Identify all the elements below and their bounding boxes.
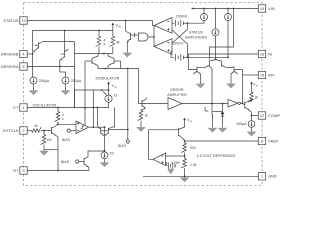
wire I4 down to error amp rail [227,21,229,58]
pin 4 DRIVERB (box) [20,50,27,57]
label R1 4k stacked [104,39,106,47]
wire center stubs [210,60,222,62]
ground below R7 [137,127,146,131]
pin 5 DRIVERA (label) [1,64,19,69]
wire Q11 base drop [120,61,122,69]
svg-text:15: 15 [260,73,264,78]
node U6 out [92,126,94,128]
node q13 top [97,107,99,109]
label I6 150uA [236,122,247,126]
label 1.5 VOLT REFERENCE [197,154,237,158]
node I4 drop [227,56,229,58]
ground ref divider [180,176,189,182]
wire modulator top rail [75,89,109,91]
svg-text:BIAS: BIAS [62,138,71,142]
pin 14 VIN (label) [268,6,275,11]
U7 minus mark [162,155,164,157]
node divider tap [184,155,186,157]
svg-text:2.5k: 2.5k [190,163,197,167]
node mirror tie [104,126,106,128]
U2 plus mark [167,28,169,30]
node ct x85 [84,107,86,109]
node rail x233.5 [233,8,235,10]
wire R5 to Q12 [41,130,49,132]
current source I3 [201,14,208,21]
svg-text:150µA: 150µA [236,122,247,126]
pin 15 INV (box) [258,71,265,78]
label VIN ref [187,118,192,123]
node VREF bottom [184,175,186,177]
label X2 [110,152,114,156]
svg-text:12: 12 [260,113,264,118]
op-amp U4 error amplifier [168,98,182,110]
svg-text:1.5 VOLT REFERENCE: 1.5 VOLT REFERENCE [197,154,237,158]
wire rail y53.5 to left rail [75,53,95,55]
wire Q16 collector stub [145,98,148,100]
svg-text:OSCILLATOR: OSCILLATOR [33,103,57,107]
node rail junction x64 [64,30,66,32]
resistor R9 2.5k [181,156,186,176]
wire DRIVERB pin4 [27,53,32,55]
battery B3 1.25V [166,162,177,169]
ground below I6 [247,127,256,136]
wire Q15 collector to X2 [88,151,105,157]
node rail x228 [227,8,229,10]
svg-text:EXTCLK: EXTCLK [3,128,19,133]
pin 3 RT (box) [20,167,27,174]
wire Q16 emitter to R7 [141,108,146,110]
wire extclk bottom rail [44,149,58,151]
wire driverA node down to source I2 [60,67,66,78]
battery B2 150mV [171,52,188,61]
resistor R8 500 [181,141,186,156]
wire error amp top rail [188,56,229,58]
ground below X2 [100,159,109,167]
svg-text:VIN: VIN [268,6,275,11]
svg-text:CT: CT [13,105,19,110]
pin 7 GND (label) [268,174,277,179]
wire Q13 Q14 bases [101,130,109,132]
transistor Q15 bias [84,157,89,168]
svg-text:MODULATOR: MODULATOR [96,76,120,80]
wire U7 output loop [149,130,179,160]
svg-text:150mV: 150mV [176,14,188,18]
svg-text:16: 16 [260,52,264,57]
transistor Q1 driverB [34,42,44,53]
label R8 500 [190,146,196,150]
label BIAS N1 [62,138,71,142]
label R5 6k [34,124,38,128]
wire Q2 emitter to driverA node [59,60,62,67]
wire EXTCLK pin2 [27,130,31,132]
U3 minus mark [167,42,169,44]
svg-text:780µA: 780µA [71,79,82,83]
node mid rail [103,53,105,55]
label R4 3k stacked [62,113,64,121]
svg-text:DRIVERB: DRIVERB [1,51,19,56]
svg-text:IN: IN [118,25,121,28]
label R6 10k [47,138,53,142]
wire Q3 emitter up to STATUS line [125,20,127,31]
label X1 [113,93,117,97]
wire Q3 collector to ground [123,41,132,57]
svg-text:10k: 10k [47,138,53,142]
wire vertical rail x=74.5 [74,42,76,109]
label 150mV (top) [176,14,188,18]
transistor Q10 (mod left) [85,54,98,69]
label BIAS N2 [118,144,127,148]
bias node N3 circle [76,160,84,163]
label MODULATOR [96,76,120,80]
svg-text:VREF: VREF [268,138,279,143]
node rail-left junction [32,53,34,55]
wire Q7 ground drop [227,74,236,88]
capacitor tick on Q3 base [134,33,136,37]
transistor Q16 ea input [142,99,146,108]
svg-text:STATUS: STATUS [3,18,19,23]
wire Q9 emitter to COMP pin [249,110,251,115]
wire U5 to Q9 base [240,103,244,105]
wire mod out drop x138.5 [138,69,140,104]
wire Q12 collector up [56,124,59,126]
node x2 top [104,150,106,152]
wire tap to U7 input [166,155,185,157]
wire mod rail drop x93.3 [92,90,94,127]
wire NI pin16 into diff pair [188,54,258,70]
label OSCILLATOR [33,103,57,107]
resistor R4 3k [55,108,60,125]
pin 2 EXTCLK (label) [3,128,19,133]
wire CT pin1 rail [27,107,108,109]
svg-text:GND: GND [268,174,277,179]
wire Q8 D1 bases [205,107,208,111]
svg-text:13: 13 [21,18,25,23]
pin 1 CT (box) [20,104,27,111]
svg-text:BIAS: BIAS [61,160,70,164]
ground below I2 [61,84,70,95]
transistor Q2 driverA [61,50,69,61]
cross wire X1a [172,23,188,43]
battery B1 150mV [172,20,188,27]
pin 3 RT (label) [13,168,19,173]
wire N2 vertical [127,68,129,140]
IC boundary (dashed border) [24,3,263,186]
svg-text:3: 3 [22,168,24,173]
node R4 bottom [57,123,59,125]
current source I6 150uA [248,121,255,128]
label VIN comp [253,83,258,88]
supply arrow VIN modulator [107,82,110,90]
wire comp node to I6 [251,116,253,121]
wire I5 top stub [215,9,217,29]
U3 plus mark [167,49,169,51]
gate U1 (AND shape) [139,33,149,41]
pin 8 VREF (label) [268,138,279,143]
wire VIN rail top-left (y=30) [33,31,113,55]
wire GND rail to pin7 [143,175,258,177]
label R3 2k [255,96,259,100]
svg-text:AMPLIFIER: AMPLIFIER [167,93,187,97]
wire U4 output to comp node [182,103,228,105]
controlled source X1 [105,90,112,102]
wire RT pin3 rail [27,170,89,172]
node ct x94 [92,107,94,109]
transistor Q3 status pnp [126,31,131,43]
node R1 top [98,30,100,32]
resistor R3 2k [248,88,253,102]
wire Q15 emitter to RT [88,167,90,170]
node ct x58 [57,107,59,109]
svg-text:ERROR: ERROR [170,88,184,92]
wire U6 output [89,126,105,128]
supply arrow VIN ref [183,118,186,123]
wire left output vertical x212 [211,69,213,104]
supply arrow VIN comp [250,82,253,89]
svg-text:INV: INV [268,72,275,77]
svg-text:2: 2 [22,128,24,133]
svg-text:k: k [104,43,106,47]
label 1.25V [171,161,181,165]
transistor Q7 (outer right) [231,67,238,74]
transistor Q11 (mod right) [108,54,121,69]
svg-text:X2: X2 [110,152,114,156]
svg-text:COMP: COMP [268,113,280,118]
wire mirror drop [104,127,106,151]
wire Q3 base to gate U1 [131,34,139,36]
wire mirror emitters [104,135,106,138]
node mod rail x101.5 [101,89,103,91]
wire mod rail left drop [74,90,76,108]
ground below Q8 [208,128,217,132]
pin 1 CT (label) [13,105,19,110]
pin 13 STATUS (label) [3,18,19,23]
wire VREF to pin8 [185,140,259,142]
transistor Q9 comp output [245,100,252,111]
label R9 2.5k [190,163,197,167]
wire Q2 drop from rail [64,31,66,51]
label VIN modulator [112,84,117,89]
pin 5 DRIVERA (box) [20,63,27,70]
current source I4 [225,14,232,21]
wire R4 to comparator [58,123,76,125]
svg-text:NI: NI [268,51,272,56]
label ERROR AMPLIFIER [167,88,187,97]
wire D1 to ground [222,116,224,127]
svg-text:500: 500 [190,146,196,150]
node comp branch [211,103,213,105]
ground extclk [40,150,49,156]
node B1 right [187,22,189,24]
op-amp U2 status amplifier (top) [154,18,172,34]
svg-text:2k: 2k [255,96,259,100]
label R7 1k [144,113,148,117]
resistor R5 6k [32,127,41,132]
wire U1 to status amps [148,36,154,38]
node rt x58 [57,170,59,172]
X1 control arrow [103,91,107,94]
wire resistor bottoms rail y=53.5 [94,53,113,55]
op-amp U7 reference amplifier [153,153,166,166]
node rail x204 [203,8,205,10]
wire status amp outputs vertical [153,26,155,47]
pin 7 GND (box) [258,173,265,180]
pin 13 STATUS (box) [20,17,27,24]
current source I2 780uA [62,77,69,84]
resistor R6 10k [41,131,46,150]
pin 14 VIN (box) [258,5,265,12]
resistor R1 4k [96,31,101,54]
label VIN top [116,23,122,28]
U7 plus mark [162,161,164,163]
transistor Q5 (inner left) [205,61,213,69]
controlled source X2 [101,151,108,159]
current source I1 780uA [30,77,37,84]
pin 16 NI (box) [258,50,265,57]
wire COMP pin stub [252,115,259,117]
wire mod left base drop x85 [84,61,86,126]
svg-text:STATUS: STATUS [189,31,204,35]
svg-text:5: 5 [22,64,24,69]
wire pin4 node down to source I1 [32,54,34,77]
wire I5 down to diff pair [215,36,217,60]
comparator U6 oscillator [76,121,89,134]
diode D1 [221,103,225,117]
wire I4 top stub [227,9,229,14]
svg-text:1k: 1k [144,113,148,117]
node extclk [43,130,45,132]
transistor Q14 mirror right [105,108,115,136]
bias node N2 circle [126,140,129,143]
inverter U5 [228,100,240,108]
wire B1 node to source I3 [188,21,205,24]
wire X1 to CT [108,102,110,108]
node B2 right [187,56,189,58]
wire bias tap right [108,129,128,131]
wire mod out rail y=68.5 [98,68,139,70]
label R2 4k [116,41,120,45]
node diff center [215,59,217,61]
U2 minus mark [167,20,169,22]
pin 12 COMP (box) [258,112,265,119]
svg-text:DRIVERA: DRIVERA [1,64,19,69]
node mod rail x108.6 [108,89,110,91]
pin 8 VREF (box) [258,137,265,144]
pin 4 DRIVERB (label) [1,51,19,56]
wire Q16 base and U4 input [139,103,169,105]
current source I5 [212,29,219,36]
wire drop to RT rail [57,150,59,171]
node rail x217 [215,8,217,10]
wire I3 top stub [203,9,205,14]
wire Q8 base to D1 [212,111,223,113]
wire Q1 collector rail y=41.5 [43,41,75,43]
wire Q12 emitter down [56,136,58,150]
label STATUS AMPLIFIERS [185,31,207,40]
wire INV vertical to comp node [242,70,244,105]
svg-text:RT: RT [13,168,19,173]
resistor R2 4k [109,31,114,54]
bias node N1 circle [67,129,76,132]
svg-text:6k: 6k [34,124,38,128]
wire STATUS pin13 to status-amp tie [27,21,154,26]
U6 hysteresis mark [81,126,85,129]
U6 minus mark [77,130,79,132]
svg-text:4k: 4k [116,41,120,45]
wire INV pin15 into diff pair [234,70,258,76]
transistor Q13 mirror left [98,108,105,136]
label I2 780uA [71,79,82,83]
wire DRIVERA pin5 [27,66,74,68]
transistor Q6 (inner right) [222,61,235,68]
svg-text:BIAS: BIAS [118,144,127,148]
node driverA junction [59,66,61,68]
svg-text:8: 8 [261,139,263,144]
node mod emitters join [104,68,106,70]
transistor Q8 mirror [212,104,213,128]
label BIAS N3 [61,160,70,164]
supply arrow VIN (top) [112,23,115,31]
svg-text:1.25V: 1.25V [171,161,181,165]
transistor Q4 (outer left) [194,67,205,74]
svg-text:AMPLIFIERS: AMPLIFIERS [185,36,207,40]
wire x233.5 branch [210,9,234,60]
pin 15 INV (label) [268,72,275,77]
ground below I1 [29,84,38,95]
op-amp U3 status amplifier (bottom) [154,39,172,55]
label 150mV (bottom) [172,42,184,46]
pin 2 EXTCLK (box) [20,127,27,134]
pin 12 COMP (label) [268,113,280,118]
transistor Q17 ref output [179,123,185,141]
node status amp tie [153,36,155,38]
node VREF [184,140,186,142]
ground below D1 [218,128,227,132]
resistor R7 1k [138,111,143,128]
pin 16 NI (label) [268,51,272,56]
label I1 780uA [39,79,50,83]
ground below B3 [168,169,174,174]
wire Q4 ground drop [196,74,205,88]
cross wire X1b [172,30,188,57]
svg-text:7: 7 [261,174,263,179]
transistor Q12 extclk [49,126,57,136]
node comp pin [251,115,253,117]
svg-text:X1: X1 [113,93,117,97]
svg-text:150mV: 150mV [172,42,184,46]
wire VIN rail from pin14 [192,7,259,9]
U6 plus mark [77,122,79,124]
svg-text:780µA: 780µA [39,79,50,83]
svg-text:1: 1 [22,105,24,110]
